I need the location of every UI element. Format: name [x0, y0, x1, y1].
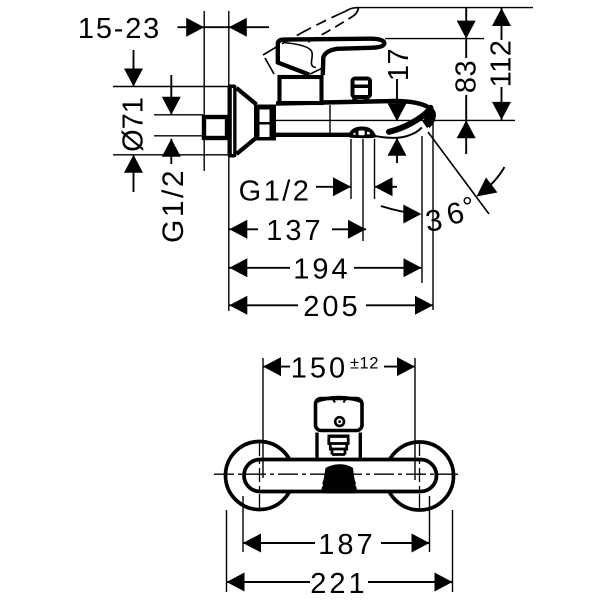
aerator extension lines [350, 139, 352, 199]
extension line top of raised lever [357, 7, 533, 9]
dimension 137 [229, 228, 366, 230]
dimension 112 [501, 8, 503, 40]
svg-text:15-23: 15-23 [78, 13, 161, 45]
svg-text:137: 137 [266, 215, 323, 247]
threaded connector [254, 105, 276, 141]
body bottom edge [276, 133, 352, 137]
G1/2 extension line top [154, 114, 203, 116]
extension line top of lever [385, 38, 484, 40]
extension line Ø71 top [113, 86, 228, 88]
body joint line [329, 105, 331, 133]
cartridge housing [280, 77, 322, 103]
vertical centerlines [259, 442, 261, 510]
dimension 83 [465, 8, 467, 58]
dimension 150 [263, 366, 415, 368]
wall line right / main vertical extension line [228, 11, 230, 311]
handle lever [278, 39, 385, 75]
escutcheon cone [237, 88, 257, 154]
svg-text:°: ° [462, 192, 474, 222]
dimension 205 [229, 304, 433, 306]
spout outlet crescent [389, 108, 431, 132]
body silhouette fill [276, 99, 436, 138]
aerator [348, 126, 376, 138]
36 degree arc with arrows [381, 206, 420, 214]
horizontal centerline [214, 473, 458, 475]
dimension Ø71 [133, 50, 135, 87]
svg-text:205: 205 [303, 291, 360, 323]
dimension 221 [227, 581, 453, 583]
svg-text:150: 150 [291, 353, 348, 385]
handle knob front [316, 399, 363, 431]
dimension G1/2 left [170, 75, 172, 115]
centerline through body [276, 119, 515, 121]
knob neck ribs [328, 435, 350, 438]
dimension 15-23 [178, 26, 270, 28]
wall line left [203, 11, 205, 171]
svg-text:83: 83 [451, 60, 483, 93]
svg-text:G1/2: G1/2 [157, 168, 190, 243]
knob skirt walls [317, 433, 360, 459]
spout extension lines [421, 136, 423, 283]
raised lever dashed outline [263, 12, 345, 56]
221 extension lines [226, 510, 228, 592]
dimension 17 [396, 79, 398, 121]
escutcheon rim [228, 85, 237, 158]
dimension 194 [229, 267, 421, 269]
G1/2 extension line bottom [154, 135, 203, 137]
36 degree diagonal [428, 132, 489, 214]
extension line Ø71 bottom [113, 154, 228, 156]
svg-text:Ø71: Ø71 [118, 97, 150, 152]
left union escutcheon circle [226, 442, 294, 510]
svg-text:194: 194 [293, 254, 350, 286]
dimension G1/2 aerator [316, 186, 351, 188]
187 extension lines [242, 496, 244, 552]
right union escutcheon circle [386, 442, 454, 510]
body top edge and spout nose [276, 101, 434, 126]
dimension 187 [243, 542, 430, 544]
spout underside [375, 127, 422, 137]
svg-text:G1/2: G1/2 [239, 176, 312, 208]
supply pipe [204, 117, 227, 138]
body capsule [244, 460, 437, 492]
svg-text:17: 17 [383, 48, 415, 81]
lever inner contour [283, 43, 316, 68]
svg-text:±12: ±12 [350, 354, 379, 372]
svg-text:221: 221 [310, 568, 367, 600]
diverter knob [353, 79, 371, 98]
svg-text:112: 112 [486, 40, 518, 88]
svg-text:187: 187 [318, 529, 375, 561]
150 extension lines [262, 358, 264, 478]
spout front blob [322, 464, 357, 493]
